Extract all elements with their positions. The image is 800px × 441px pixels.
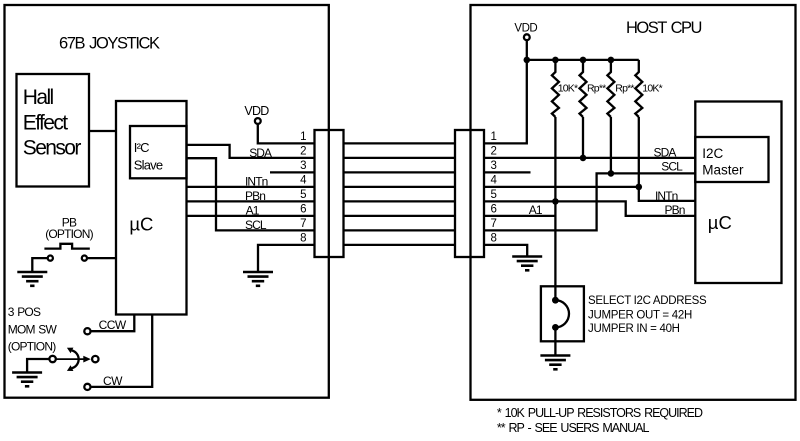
wire J2 pin1 to VDD xyxy=(484,60,527,143)
SW1 CW contact xyxy=(84,384,90,390)
junction R4/INTn xyxy=(636,184,643,191)
svg-text:Slave: Slave xyxy=(134,158,163,173)
svg-text:6: 6 xyxy=(300,203,306,215)
SW1 arc arrowhead top xyxy=(67,348,74,354)
wire R2 lead to SDA xyxy=(582,117,584,158)
svg-text:3: 3 xyxy=(491,160,497,172)
jumper pin bottom xyxy=(552,324,559,331)
svg-text:PBn: PBn xyxy=(665,203,685,217)
SW1 arc arrowhead bottom xyxy=(67,365,74,371)
resistor R4 10K* xyxy=(635,60,642,117)
svg-text:CCW: CCW xyxy=(99,318,127,332)
svg-text:I²C: I²C xyxy=(134,140,149,155)
I2C slave block inside U1 xyxy=(130,126,187,178)
SW1 pole contact xyxy=(49,356,55,362)
svg-text:5: 5 xyxy=(300,189,306,201)
microcontroller U2 (host uC) xyxy=(695,102,781,284)
junction R1/pin5 xyxy=(552,198,559,205)
host CPU module outline xyxy=(471,5,796,400)
ribbon wire pin5 J1-J2 xyxy=(344,200,456,202)
wire J2 pin8 to ground xyxy=(484,245,527,257)
ribbon wire pin4 J1-J2 xyxy=(344,186,456,188)
wire A1 uC to J1 pin6 xyxy=(187,215,315,217)
svg-text:SCL: SCL xyxy=(245,218,267,232)
svg-text:Sensor: Sensor xyxy=(23,137,82,160)
wire PB to ground xyxy=(32,258,47,272)
wire CCW to uC xyxy=(91,315,135,332)
junction R2/SDA xyxy=(580,155,587,162)
wire VDD stem to bus xyxy=(526,40,528,60)
wire J1 pin8 to ground xyxy=(258,245,315,272)
J1 pin numbers xyxy=(300,131,307,245)
wire stub J1 pin3 xyxy=(270,171,315,173)
svg-text:I2C: I2C xyxy=(702,146,723,161)
VDD pull-up bus wire xyxy=(527,59,639,61)
svg-text:Rp**: Rp** xyxy=(615,83,634,95)
67B joystick module outline xyxy=(5,5,329,398)
svg-text:10K*: 10K* xyxy=(642,83,662,95)
VDD terminal (host) xyxy=(524,34,530,40)
svg-text:2: 2 xyxy=(491,145,497,157)
resistor R2 Rp** xyxy=(580,60,587,117)
svg-text:SCL: SCL xyxy=(661,160,683,174)
VDD terminal (joystick) xyxy=(255,118,261,124)
ground (jumper) xyxy=(540,356,570,370)
wire R1 lead through PBn row to jumper xyxy=(554,117,556,300)
svg-text:VDD: VDD xyxy=(514,22,537,34)
svg-text:3: 3 xyxy=(300,160,306,172)
jumper JP1 xyxy=(541,286,584,341)
wire SCL slave to J1 pin7 xyxy=(187,158,315,230)
connector J1 (joystick side) xyxy=(315,130,344,257)
junction R3/SCL xyxy=(608,170,615,177)
svg-text:8: 8 xyxy=(491,232,497,244)
svg-text:PBn: PBn xyxy=(245,189,265,203)
ribbon wire pin8 J1-J2 xyxy=(344,244,456,246)
ground (SW1) xyxy=(12,373,42,387)
svg-text:7: 7 xyxy=(491,218,497,230)
wire PBn uC to J1 pin5 xyxy=(187,200,315,202)
junction R2 top xyxy=(580,57,587,64)
svg-text:JUMPER IN = 40H: JUMPER IN = 40H xyxy=(588,323,680,335)
svg-text:HOST CPU: HOST CPU xyxy=(626,19,702,37)
svg-text:SELECT I2C ADDRESS: SELECT I2C ADDRESS xyxy=(588,295,707,307)
pushbutton PB xyxy=(44,244,89,249)
svg-text:7: 7 xyxy=(300,218,306,230)
wire SCL J2 pin7 to I2C master xyxy=(484,173,695,230)
svg-text:INTn: INTn xyxy=(245,175,268,189)
svg-text:µC: µC xyxy=(708,212,732,233)
svg-text:8: 8 xyxy=(300,232,306,244)
wire ground to SW1 pole xyxy=(27,359,49,373)
svg-text:1: 1 xyxy=(491,131,497,143)
jumper arc xyxy=(555,300,569,327)
wire A1 J2 pin6 to jumper branch xyxy=(484,215,555,217)
wire SDA slave to J1 pin2 xyxy=(187,145,315,158)
jumper pin top xyxy=(552,297,559,304)
SW1 CCW contact xyxy=(84,328,90,334)
svg-text:A1: A1 xyxy=(529,203,543,217)
wire jumper to ground xyxy=(554,327,556,355)
wire R3 lead to SCL xyxy=(610,117,612,173)
svg-text:1: 1 xyxy=(300,131,306,143)
wire R4 lead to pin4 xyxy=(638,117,640,187)
ribbon wire pin3 J1-J2 xyxy=(344,171,456,173)
resistor R1 10K* xyxy=(552,60,559,117)
wire INTn uC to J1 pin4 xyxy=(187,186,315,188)
svg-text:67B JOYSTICK: 67B JOYSTICK xyxy=(59,35,160,53)
svg-text:(OPTION): (OPTION) xyxy=(45,227,93,241)
svg-text:Effect: Effect xyxy=(23,111,68,134)
svg-text:SDA: SDA xyxy=(249,146,272,160)
SW1 center contact xyxy=(92,356,98,362)
svg-text:* 10K PULL-UP RESISTORS REQUIR: * 10K PULL-UP RESISTORS REQUIRED xyxy=(497,406,703,420)
junction VDD/pin1 xyxy=(524,57,531,64)
ribbon wire pin1 J1-J2 xyxy=(344,142,456,144)
SW1 momentary arc xyxy=(72,350,79,368)
wire Hall sensor to uC xyxy=(89,130,116,132)
svg-text:2: 2 xyxy=(300,145,306,157)
svg-text:4: 4 xyxy=(491,174,498,186)
ribbon wire pin7 J1-J2 xyxy=(344,229,456,231)
ground (PB) xyxy=(17,272,47,286)
svg-text:MOM SW: MOM SW xyxy=(8,322,58,336)
svg-text:10K*: 10K* xyxy=(558,83,578,95)
I2C master block inside U2 xyxy=(695,137,768,182)
wire PB to uC xyxy=(87,257,116,259)
svg-text:A1: A1 xyxy=(246,204,260,218)
wire SDA J2 pin2 to I2C master xyxy=(484,157,695,159)
svg-text:Hall: Hall xyxy=(23,86,54,109)
svg-text:SDA: SDA xyxy=(654,145,677,159)
svg-text:4: 4 xyxy=(300,174,307,186)
SW1 throw arrow xyxy=(56,358,86,360)
wire INTn J2 pin4 to uC xyxy=(484,187,695,201)
junction R1 top xyxy=(552,57,559,64)
ground (J2 pin8) xyxy=(512,257,542,271)
svg-text:6: 6 xyxy=(491,203,497,215)
wire VDD to J1 pin1 xyxy=(258,124,315,143)
svg-text:INTn: INTn xyxy=(655,189,678,203)
ribbon wire pin2 J1-J2 xyxy=(344,157,456,159)
J2 pin numbers xyxy=(491,131,498,245)
microcontroller U1 (joystick uC) xyxy=(116,101,187,315)
wire PBn J2 pin5 to uC xyxy=(484,201,695,216)
connector J2 (host side) xyxy=(455,130,484,257)
Hall Effect Sensor block xyxy=(17,74,90,187)
wire CW to uC xyxy=(91,315,153,387)
svg-text:Rp**: Rp** xyxy=(587,83,606,95)
ground (J1 pin8) xyxy=(243,272,273,286)
svg-text:Master: Master xyxy=(702,163,744,178)
svg-text:** RP - SEE USERS MANUAL: ** RP - SEE USERS MANUAL xyxy=(497,421,650,435)
svg-text:JUMPER OUT = 42H: JUMPER OUT = 42H xyxy=(588,309,692,321)
svg-text:µC: µC xyxy=(129,214,153,235)
resistor R3 Rp** xyxy=(607,60,614,117)
junction R3 top xyxy=(608,57,615,64)
svg-text:5: 5 xyxy=(491,189,497,201)
svg-text:3 POS: 3 POS xyxy=(8,305,41,319)
svg-text:(OPTION): (OPTION) xyxy=(8,340,56,354)
ribbon wire pin6 J1-J2 xyxy=(344,215,456,217)
svg-text:VDD: VDD xyxy=(244,104,269,118)
wire stub J2 pin3 xyxy=(484,171,531,173)
